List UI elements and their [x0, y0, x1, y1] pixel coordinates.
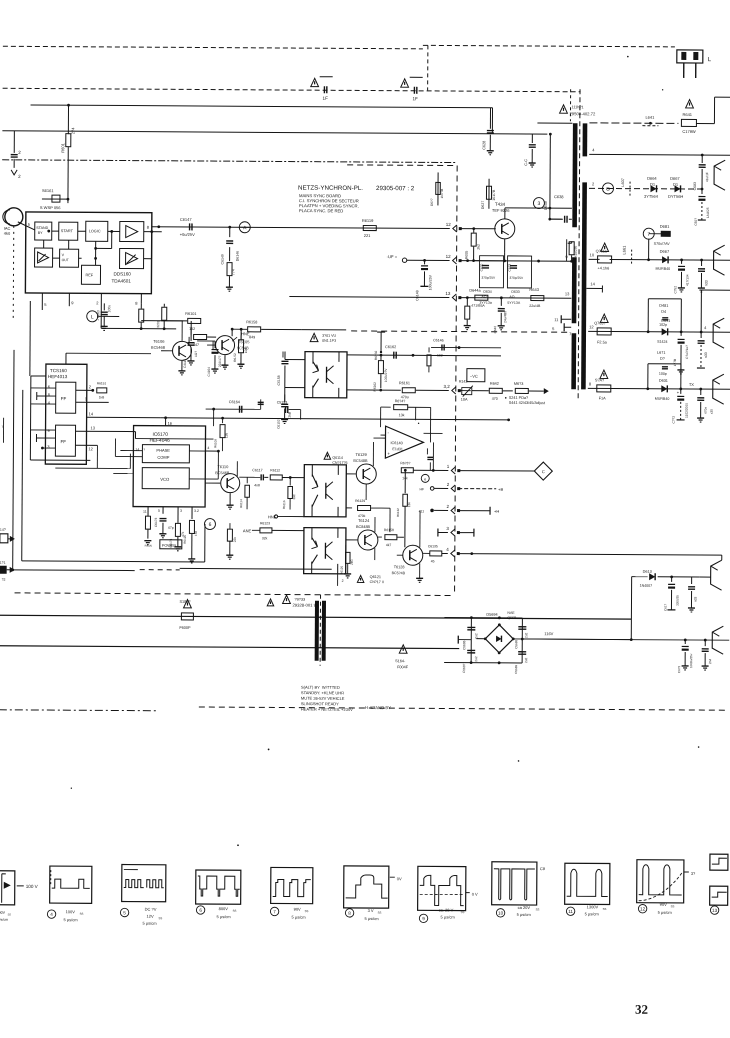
svg-text:800V: 800V: [219, 906, 229, 911]
block STAND BY: [35, 222, 52, 240]
op-amp IC6140: [385, 426, 423, 458]
svg-text:VCO: VCO: [160, 477, 170, 482]
op-amp ic U160 box: [25, 212, 151, 294]
out connector rail D: [713, 245, 724, 275]
tcs pin right 13: [76, 430, 136, 432]
wire source down: [474, 260, 505, 262]
svg-text:?2: ?2: [2, 578, 6, 582]
svg-text:10: 10: [498, 911, 504, 916]
wire rail: [2, 131, 547, 134]
svg-text:R6158: R6158: [246, 320, 257, 324]
svg-text:126: 126: [224, 433, 228, 439]
resistor R6114: [246, 477, 248, 483]
svg-text:C6158: C6158: [277, 375, 281, 385]
svg-text:29500-402.72: 29500-402.72: [569, 111, 596, 116]
capacitor C603: [701, 188, 704, 191]
wire bus x29: [29, 301, 31, 376]
transformer T1 dashed center: [578, 89, 580, 399]
transformer T1 core bar left: [572, 123, 577, 227]
svg-text:3: 3: [47, 445, 49, 449]
svg-text:5 µs/cm: 5 µs/cm: [585, 911, 600, 916]
svg-text:9C54B: 9C54B: [237, 346, 249, 350]
svg-text:D691: D691: [661, 319, 670, 323]
svg-text:11: 11: [568, 909, 573, 914]
svg-text:SS: SS: [80, 912, 84, 916]
tcs outer loop: [29, 376, 32, 460]
svg-text:+4.1h6: +4.1h6: [598, 266, 610, 270]
capacitor C614a: [671, 577, 673, 582]
tcs pin top: [65, 353, 67, 364]
board edge dashed vertical: [455, 166, 458, 596]
svg-text:T6128: T6128: [394, 565, 405, 569]
svg-text:PHASE: PHASE: [156, 448, 170, 453]
node G: [602, 183, 613, 194]
svg-text:2k2: 2k2: [477, 244, 481, 250]
svg-text:370p/25V: 370p/25V: [509, 276, 524, 280]
svg-text:3: 3: [180, 509, 182, 513]
scope 3 (partial left): [0, 871, 15, 905]
wire left edge lower: [2, 418, 4, 443]
svg-text:R6?3?: R6?3?: [400, 461, 410, 465]
svg-text:116V: 116V: [544, 631, 553, 636]
svg-text:2: 2: [342, 579, 344, 583]
tcs pins left: [31, 387, 56, 389]
svg-text:S(ALT) BY W/TTTED: S(ALT) BY W/TTTED: [301, 685, 340, 690]
svg-text:1102/2000: 1102/2000: [685, 403, 689, 418]
svg-text:R6129: R6129: [355, 499, 365, 503]
svg-text:SS: SS: [159, 916, 163, 920]
svg-text:SS: SS: [461, 910, 465, 914]
svg-text:CN?17 II: CN?17 II: [370, 580, 384, 584]
warn opto2: [357, 575, 364, 582]
svg-text:SS: SS: [8, 912, 12, 916]
svg-text:C6164: C6164: [229, 400, 240, 404]
svg-text:~VC: ~VC: [470, 374, 478, 379]
svg-text:3,2: 3,2: [444, 384, 451, 389]
capacitor C6158: [282, 351, 284, 357]
svg-text:Q6114: Q6114: [332, 456, 343, 460]
svg-text:2u2: 2u2: [474, 656, 478, 662]
wire pin2 net: [101, 327, 176, 329]
svg-text:S183?: S183?: [179, 600, 190, 604]
capacitor C4115: [190, 329, 192, 335]
svg-text:1F: 1F: [413, 96, 419, 101]
tcs mid pin 14: [87, 416, 161, 418]
resistor R6171: [145, 516, 150, 529]
svg-text:3 V: 3 V: [368, 908, 374, 913]
svg-text:47p: 47p: [168, 526, 174, 530]
capacitor C687 out: [704, 639, 707, 642]
transformer T2 dashed center: [319, 595, 321, 666]
scope 12: [637, 860, 684, 903]
svg-text:D681: D681: [660, 224, 670, 229]
svg-text:Q765?: Q765?: [594, 321, 605, 325]
capacitor C1672: [680, 389, 682, 394]
svg-text:10A: 10A: [461, 398, 468, 402]
board edge dashed bottom: [15, 593, 455, 596]
capacitor C5688: [518, 626, 526, 628]
svg-text:SS: SS: [305, 909, 309, 913]
svg-text:0V: 0V: [397, 876, 402, 881]
node A: [239, 222, 250, 233]
scope 8: [344, 866, 389, 908]
svg-text:5 µs/cm: 5 µs/cm: [217, 914, 232, 919]
svg-text:C5687: C5687: [462, 663, 466, 673]
wire rail D: [589, 258, 600, 260]
transformer T2 label: [267, 599, 274, 606]
ic6170 pin14 left: [120, 450, 142, 452]
terminal -UF: [402, 258, 406, 262]
stub pins 5 7: [564, 326, 571, 328]
svg-text:DYT56H: DYT56H: [668, 194, 683, 199]
ic6170 right pin4: [189, 450, 205, 452]
svg-text:R6125: R6125: [340, 566, 344, 575]
svg-text:370p/25V: 370p/25V: [481, 276, 496, 280]
resistor R6119: [363, 225, 376, 230]
svg-text:C??2: C??2: [672, 416, 676, 424]
svg-text:1N4007: 1N4007: [640, 584, 653, 588]
svg-text:T6110: T6110: [217, 464, 229, 469]
svg-text:S241 PDa?: S241 PDa?: [509, 396, 528, 400]
svg-text:C5689: C5689: [514, 665, 518, 674]
svg-text:2kG: 2kG: [350, 559, 354, 565]
transistor T6106: [172, 341, 191, 360]
wire rail 297 to bar: [459, 297, 571, 300]
pin mid: [430, 509, 434, 513]
svg-text:471/B5A: 471/B5A: [471, 304, 485, 308]
wire U160 out: [144, 231, 162, 233]
svg-text:F600P: F600P: [179, 626, 191, 630]
resistor R6135: [423, 552, 430, 554]
wire opto top out: [347, 354, 501, 357]
capacitor C683: [701, 155, 703, 163]
pin 1 out: [451, 467, 455, 474]
pin 12b into board: [453, 257, 457, 264]
svg-text:6: 6: [48, 385, 50, 389]
svg-text:L649: L649: [543, 200, 548, 210]
svg-text:S164-: S164-: [395, 659, 406, 663]
wire dashed mains-isolation top: [3, 46, 423, 49]
wire rail B: [589, 153, 730, 156]
opto2 bottom pin: [337, 574, 339, 586]
svg-text:D481: D481: [659, 304, 668, 308]
svg-text:5 µs/cm: 5 µs/cm: [143, 921, 158, 926]
svg-text:1?7B: 1?7B: [673, 359, 677, 366]
bridge rectifier D5694: [485, 625, 513, 653]
scope 5: [122, 865, 166, 902]
wire dashed vertical: [427, 45, 429, 90]
resistor R6162: [380, 355, 382, 360]
wire rail: [31, 105, 493, 108]
svg-text:+H: +H: [494, 509, 499, 514]
svg-text:L: L: [91, 314, 94, 320]
svg-text:1G?: 1G?: [194, 351, 198, 357]
capacitor C6162: [393, 352, 395, 359]
svg-text:n33: n33: [693, 596, 697, 602]
svg-text:START: START: [61, 229, 74, 233]
svg-text:S441 42/43/45/Adjust: S441 42/43/45/Adjust: [509, 401, 546, 405]
svg-text:4: 4: [48, 401, 50, 405]
svg-text:100V: 100V: [66, 909, 76, 914]
svg-text:4k0: 4k0: [4, 231, 11, 236]
svg-text:+: +: [387, 451, 390, 456]
svg-text:D627: D627: [481, 201, 485, 209]
wire rail F: [588, 387, 730, 390]
fuse S641 rail F: [600, 370, 608, 378]
resistor R6158: [232, 328, 247, 330]
svg-text:C6?3: C6?3: [677, 666, 681, 674]
svg-text:5 µs/cm: 5 µs/cm: [658, 910, 673, 915]
capacitor C5686: [467, 626, 475, 628]
svg-text:L671: L671: [657, 351, 665, 355]
svg-text:R6120: R6120: [183, 535, 187, 544]
resistor R655: [473, 229, 475, 233]
transistor T6129: [356, 464, 376, 484]
warn label top opto: [310, 333, 318, 341]
svg-text:C5688: C5688: [514, 640, 518, 649]
wire dashed isolation left of T1: [569, 89, 571, 121]
label POWER box: [160, 540, 182, 549]
wire bridge right vert: [521, 618, 523, 663]
ic6170 right pin vco: [189, 478, 218, 480]
svg-text:IC6170: IC6170: [152, 432, 168, 438]
wire dashed standby long: [199, 707, 729, 710]
resistor M613: [515, 388, 528, 393]
wire long 553: [458, 554, 722, 556]
svg-text:DC ?V: DC ?V: [145, 907, 157, 912]
capacitor C6160 stub: [260, 399, 262, 409]
optocoupler IC6121: [304, 528, 346, 574]
transistor T434 TEF9226: [495, 219, 515, 239]
svg-text:C9: C9: [540, 866, 546, 871]
resistor R6104: [194, 334, 207, 339]
svg-text:+ C663: + C663: [96, 310, 100, 321]
svg-text:5YY13A: 5YY13A: [507, 301, 521, 305]
capacitor C6164: [206, 408, 261, 410]
wire dashed to top connector: [423, 45, 675, 47]
svg-text:R643: R643: [529, 287, 539, 292]
svg-text:3231: 3231: [156, 320, 160, 327]
svg-text:5 µs/cm: 5 µs/cm: [64, 917, 79, 922]
block REF: [81, 265, 100, 284]
diode D6146 branch: [228, 226, 231, 229]
resistor R6129: [346, 507, 352, 509]
resistor R6137: [401, 468, 413, 473]
block LOGIC: [86, 221, 108, 241]
svg-text:-UF =: -UF =: [387, 254, 398, 259]
svg-text:13: 13: [712, 908, 718, 913]
svg-text:CN?17?5: CN?17?5: [332, 461, 347, 465]
wire main drive: [152, 227, 450, 229]
block out buffer: [120, 248, 144, 268]
capacitor C678: [680, 332, 682, 336]
svg-text:29328-001 9: 29328-001 9: [292, 603, 316, 608]
pin 3 into board: [452, 387, 456, 394]
svg-text:6: 6: [209, 522, 212, 528]
out connector D613: [711, 560, 722, 590]
capacitor C679: [700, 332, 702, 338]
svg-text:14k: 14k: [402, 476, 408, 480]
svg-text:41u/1F: 41u/1F: [705, 172, 709, 182]
svg-text:TCS160: TCS160: [50, 368, 67, 373]
wire dash-dot rail: [2, 160, 457, 163]
svg-text:221: 221: [364, 233, 371, 238]
svg-text:41?/104: 41?/104: [685, 274, 689, 286]
tcs pin right 2: [76, 389, 93, 391]
svg-text:3?01 VU: 3?01 VU: [322, 334, 336, 338]
transistor T6128: [403, 545, 423, 565]
svg-text:C5153: C5153: [277, 400, 288, 404]
svg-text:REF: REF: [85, 273, 93, 277]
svg-text:F2.5a: F2.5a: [597, 340, 608, 344]
fuse R641: [686, 100, 694, 108]
resistor R6174: [175, 523, 180, 536]
svg-text:D631: D631: [659, 379, 668, 383]
tcs pin right 1: [76, 401, 109, 403]
svg-text:D667: D667: [670, 176, 680, 181]
snubber cell C633: [507, 256, 531, 288]
svg-text:L607: L607: [621, 178, 625, 186]
block VCO: [142, 468, 189, 489]
svg-text:T6105: T6105: [238, 339, 250, 344]
svg-text:100Bu/25v: 100Bu/25v: [689, 653, 693, 668]
resistor R643: [531, 296, 544, 301]
capacitor C6163: [285, 406, 287, 413]
svg-text:Q6121: Q6121: [370, 575, 381, 579]
svg-text:D667: D667: [660, 249, 670, 254]
wire dash-dot standby: [0, 709, 159, 712]
resistor R6152 v: [240, 335, 242, 339]
out connector rail F: [713, 374, 724, 404]
svg-text:4n8: 4n8: [254, 483, 260, 487]
svg-text:R641: R641: [682, 112, 692, 117]
pin 13 into board: [452, 294, 456, 301]
svg-text:1300V: 1300V: [587, 904, 599, 909]
svg-text:2n4: 2n4: [708, 659, 712, 665]
wire bridge bottom: [444, 661, 522, 663]
svg-text:C633: C633: [508, 264, 512, 272]
scope 13 (partial right): [710, 854, 728, 870]
svg-text:D633: D633: [511, 290, 519, 294]
wire to diamond: [458, 470, 535, 472]
transistor T6126: [358, 530, 378, 550]
svg-text:Q?651: Q?651: [596, 249, 607, 253]
wire dashed sensor: [12, 226, 15, 318]
svg-text:22k: 22k: [233, 537, 237, 543]
wire to snubber right: [301, 329, 346, 331]
svg-text:1?1: 1?1: [0, 561, 6, 565]
svg-text:3: 3: [538, 201, 541, 207]
svg-text:D634: D634: [483, 290, 491, 294]
capacitor C6173: [159, 518, 166, 520]
svg-text:161/7B: 161/7B: [492, 189, 496, 201]
fuse Q7651 rail E: [600, 314, 608, 322]
svg-text:R6132: R6132: [396, 508, 400, 517]
svg-text:DDS160: DDS160: [113, 271, 131, 276]
svg-text:111h?1: 111h?1: [572, 105, 584, 109]
resistor R6153: [140, 304, 142, 309]
svg-text:R6?4?: R6?4?: [395, 399, 406, 403]
capacitor C638: [550, 218, 562, 220]
svg-text:102p: 102p: [659, 323, 667, 327]
transformer T2 core right: [322, 601, 326, 661]
wire opto bottom out: [347, 389, 401, 391]
snubber cell C630: [479, 256, 503, 288]
svg-text:H S?AND BY: H S?AND BY: [365, 705, 391, 710]
svg-text:5 µs/cm: 5 µs/cm: [365, 916, 380, 921]
capacitor on isolation line 2: [401, 79, 409, 87]
ff block 1: [56, 382, 76, 413]
svg-text:C6162: C6162: [385, 345, 396, 349]
svg-text:R6112: R6112: [270, 468, 280, 472]
svg-text:3YT564: 3YT564: [644, 194, 659, 199]
tcs bottom loop: [55, 467, 130, 469]
resistor R5154: [163, 304, 165, 307]
svg-text:?9?33: ?9?33: [294, 598, 305, 602]
box AVC: [467, 369, 485, 382]
wire rail 648: [0, 646, 459, 649]
svg-text:774: 774: [231, 269, 235, 275]
capacitor C6148: [423, 259, 426, 262]
wire vco rc: [213, 409, 215, 426]
scope 6: [196, 870, 241, 904]
svg-text:S6161: S6161: [42, 188, 54, 193]
svg-text:2u2: 2u2: [524, 632, 528, 638]
svg-text:3300/25: 3300/25: [675, 595, 679, 606]
capacitor C629: [531, 134, 533, 143]
svg-text:849: 849: [249, 335, 255, 339]
node L: [87, 311, 98, 322]
svg-text:BC548B: BC548B: [353, 459, 368, 463]
capacitor C6117: [239, 476, 260, 478]
svg-text:NAE: NAE: [507, 611, 515, 615]
svg-text:C6117: C6117: [252, 468, 262, 472]
svg-text:C630: C630: [480, 263, 484, 271]
svg-text:13k: 13k: [399, 413, 405, 417]
tcs pin right 12: [75, 444, 97, 446]
svg-text:S1424: S1424: [657, 340, 667, 344]
svg-text:PLACA SYNC. DE RED: PLACA SYNC. DE RED: [299, 208, 343, 213]
svg-text:45: 45: [431, 559, 435, 563]
wire: [491, 108, 493, 134]
svg-text:100u: 100u: [107, 305, 111, 313]
svg-text:4: 4: [207, 446, 209, 450]
svg-text:ca 20V: ca 20V: [518, 905, 531, 910]
svg-text:ANE: ANE: [243, 528, 252, 533]
block PHASE COMP: [142, 445, 189, 463]
svg-text:S70u/7AV: S70u/7AV: [654, 242, 671, 246]
svg-text:+11: +11: [418, 509, 424, 513]
capacitor C1652: [681, 260, 683, 264]
ic IC6170 box: [133, 426, 205, 507]
stub pin 14 right: [586, 287, 602, 289]
svg-text:BC546B: BC546B: [151, 346, 166, 350]
svg-text:D5694: D5694: [486, 613, 497, 617]
svg-text:TEF 9226: TEF 9226: [492, 208, 510, 213]
svg-text:1kB: 1kB: [99, 395, 105, 399]
svg-text:R601: R601: [60, 142, 65, 152]
svg-text:R6158: R6158: [384, 528, 394, 532]
svg-text:14?: 14?: [0, 528, 6, 532]
svg-text:ca. 28 V: ca. 28 V: [439, 907, 454, 912]
svg-text:41u/295: 41u/295: [574, 246, 578, 258]
wire U160 pins bottom: [41, 293, 43, 310]
scope 11: [565, 863, 610, 904]
svg-text:C6173: C6173: [154, 517, 158, 527]
svg-text:SS: SS: [536, 908, 540, 912]
svg-text:SS: SS: [378, 911, 382, 915]
svg-text:470n: 470n: [704, 407, 708, 414]
